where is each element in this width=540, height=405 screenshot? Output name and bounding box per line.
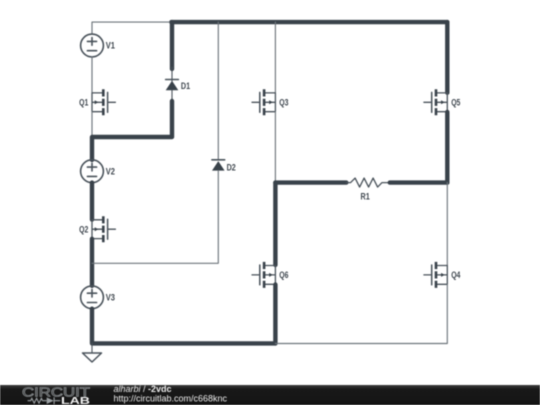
transistor Q1 [92, 89, 115, 115]
wire V3 bottom to bottom rail corner (thick) [92, 309, 275, 344]
wire R1 junction down to Q6 (thick) [273, 183, 277, 265]
footer banner [0, 385, 540, 405]
transistor Q2 [92, 216, 115, 242]
wire V1 top to rail [92, 22, 171, 34]
wire Q1 bottom to junction [91, 112, 93, 137]
wire R1 left (thick) [275, 180, 346, 184]
wire rail to Q3 [274, 22, 276, 93]
voltage source V3 [81, 286, 104, 309]
transistor Q3 [252, 89, 275, 115]
diode D1 [166, 67, 179, 102]
voltage source V2 [81, 160, 104, 183]
wire top rail (thick) [171, 20, 447, 24]
logo resistor-diode glyph [28, 397, 61, 404]
wire D1 to V2 junction (thick) [92, 101, 172, 160]
svg-text:Q6: Q6 [279, 270, 288, 280]
wire Q6 bottom to bottom rail (thick) [273, 285, 277, 344]
transistor Q4 [424, 262, 447, 288]
svg-text:http://circuitlab.com/c668knc: http://circuitlab.com/c668knc [114, 393, 228, 403]
diode D2 [212, 160, 225, 171]
wire Q4 bottom to bottom rail [275, 284, 447, 343]
wire rail to Q5 (thick) [445, 22, 449, 93]
wire R1 right (thick) [390, 180, 448, 184]
svg-text:V1: V1 [106, 41, 115, 51]
ground [83, 343, 102, 362]
svg-text:Q5: Q5 [451, 98, 460, 108]
svg-text:D1: D1 [181, 81, 190, 91]
diode D1 branch wire (thick) [170, 22, 174, 69]
wire Q3 bottom to R1 junction [274, 112, 276, 183]
svg-text:Q4: Q4 [451, 270, 460, 280]
logo CIRCUIT [0, 385, 540, 405]
svg-text:Q2: Q2 [79, 224, 88, 234]
svg-text:D2: D2 [227, 162, 236, 172]
svg-text:R1: R1 [361, 191, 370, 201]
wire D2 bottom to left chain [92, 171, 218, 264]
voltage source V1 [81, 34, 104, 57]
transistor Q6 [252, 262, 275, 288]
wire V1 bottom to Q1 [91, 57, 93, 93]
wire V2 bottom to Q2 (thick) [90, 183, 94, 220]
svg-text:Q3: Q3 [279, 98, 288, 108]
wire Q5 bottom to R1 junction (thick) [445, 112, 449, 183]
svg-text:Q1: Q1 [79, 98, 88, 108]
svg-text:V2: V2 [106, 166, 115, 176]
resistor R1 [346, 178, 390, 187]
svg-text:V3: V3 [106, 293, 115, 303]
diode D2 branch wire from rail [217, 22, 219, 160]
svg-text:LAB: LAB [61, 395, 90, 405]
wire R1 junction down to Q4 [446, 183, 448, 266]
wire Q2 bottom to V3 (thick) [90, 239, 94, 286]
transistor Q5 [424, 89, 447, 115]
